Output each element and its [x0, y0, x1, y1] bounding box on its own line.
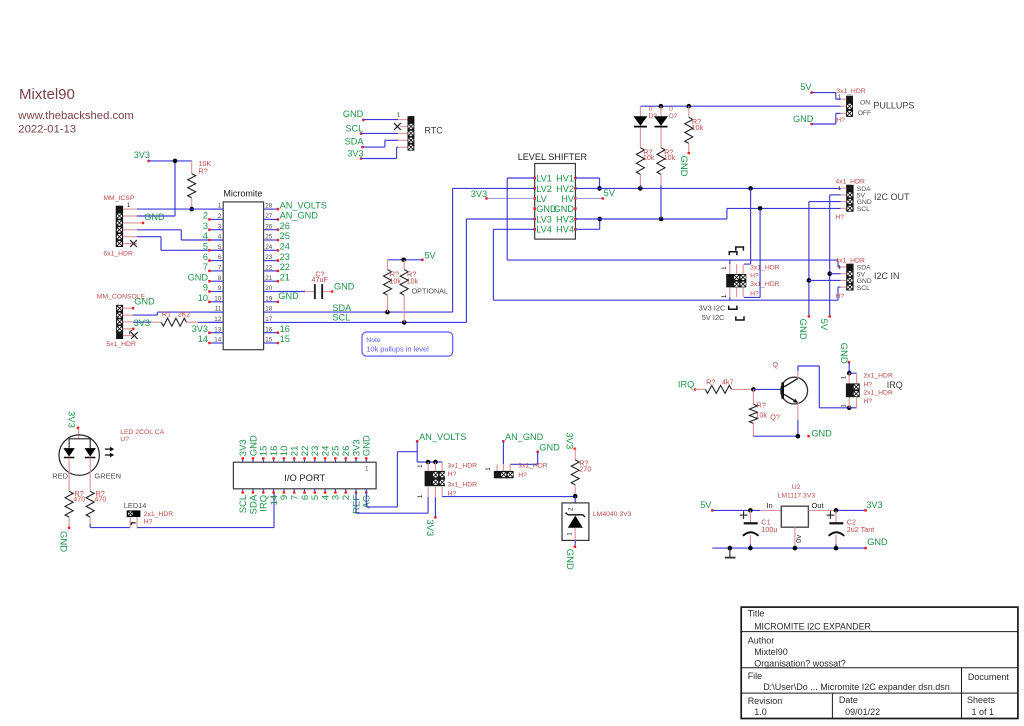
node 5V (level shifter HV) — [602, 188, 616, 200]
svg-text:2u2 Tant: 2u2 Tant — [847, 525, 874, 534]
svg-text:3x1_HDR: 3x1_HDR — [750, 281, 780, 288]
Micromite right pin numbers 28-15 — [265, 203, 273, 344]
svg-text:HV1: HV1 — [556, 173, 574, 183]
wire GND to header pin3 — [510, 452, 538, 471]
node 5V (PULLUPS) — [800, 82, 813, 94]
svg-text:File: File — [748, 671, 763, 681]
svg-text:3V3: 3V3 — [564, 432, 575, 449]
node 3V3 (jumper middle bottom) — [424, 497, 437, 536]
svg-text:Date: Date — [839, 695, 858, 705]
node 3V3 (regulator output) — [864, 500, 882, 512]
svg-text:GND: GND — [811, 429, 832, 439]
svg-text:GND: GND — [343, 109, 364, 119]
wire 3V3 to LV pin — [488, 197, 535, 199]
url text www.thebackshed.com — [17, 110, 134, 122]
svg-text:LV2: LV2 — [536, 184, 552, 194]
no-connect X on ICSP pin6 — [130, 240, 137, 247]
resistor R? 10k (under D? SDA) — [636, 147, 654, 188]
svg-text:OPTIONAL: OPTIONAL — [412, 286, 448, 295]
svg-text:4: 4 — [203, 231, 208, 241]
svg-text:LV1: LV1 — [536, 173, 552, 183]
svg-text:6x1_HDR: 6x1_HDR — [103, 250, 133, 257]
connector I/O PORT — [233, 462, 376, 489]
svg-text:3V3: 3V3 — [347, 148, 363, 158]
wire 5V to PULLUPS pin1 — [812, 93, 841, 100]
IRQ header bottom stubs — [849, 397, 856, 408]
svg-text:14: 14 — [198, 334, 208, 344]
svg-text:SCL: SCL — [345, 123, 363, 133]
svg-text:7: 7 — [218, 265, 222, 272]
svg-text:10k pullups in level: 10k pullups in level — [366, 345, 429, 354]
svg-text:5V: 5V — [424, 250, 436, 260]
svg-text:1: 1 — [838, 94, 841, 100]
svg-text:3x1_HDR: 3x1_HDR — [448, 481, 478, 488]
Micromite left pin numbers 1-14 — [214, 203, 222, 344]
Micromite left pin terminals — [208, 218, 211, 344]
wire HV1 to HV2 join — [575, 178, 599, 188]
junction HV3/HV4 — [597, 217, 602, 222]
junction net B / diode D? pulldown — [659, 217, 664, 222]
wire SDA to RTC pin4 — [363, 140, 408, 147]
svg-text:9: 9 — [218, 285, 222, 292]
svg-text:I2C OUT: I2C OUT — [874, 192, 910, 202]
wire green LED to LED14 jumper — [90, 524, 130, 528]
connector RTC (5x1 header) — [397, 113, 443, 151]
wire SCL to RTC pin3 — [361, 132, 408, 134]
svg-text:GND: GND — [867, 537, 888, 547]
Micromite right pin terminals — [277, 208, 280, 345]
svg-text:GND: GND — [554, 204, 575, 214]
IC level shifter module — [518, 152, 588, 239]
ground GND (IRQ header top) — [838, 343, 850, 364]
resistor R? 470 (green LED) — [86, 475, 106, 524]
svg-text:H?: H? — [518, 472, 527, 479]
svg-text:AN_VOLTS: AN_VOLTS — [419, 432, 466, 442]
svg-text:H?: H? — [835, 293, 844, 300]
svg-text:Mixtel90: Mixtel90 — [19, 86, 75, 103]
svg-text:LV: LV — [536, 194, 547, 204]
no-connect X on RTC pin2 — [394, 123, 408, 130]
ground GND (emitter) — [807, 429, 832, 439]
svg-text:3V3: 3V3 — [424, 519, 435, 536]
svg-text:R1: R1 — [162, 309, 171, 318]
wire net y300 into jumper pin (5V side) — [729, 297, 731, 300]
junction net B / SCL jumper drop — [758, 206, 763, 211]
connector PULLUPS (3x1 header) — [836, 88, 914, 124]
svg-text:15: 15 — [265, 337, 273, 344]
svg-text:GREEN: GREEN — [94, 471, 121, 480]
svg-text:3V3 I2C: 3V3 I2C — [699, 304, 726, 313]
svg-text:D:\User\Do ... Micromite I2C e: D:\User\Do ... Micromite I2C expander ds… — [763, 682, 950, 692]
svg-text:R?: R? — [757, 401, 766, 410]
label 3V3 on console wire — [134, 318, 150, 328]
resistor R? 10K (MCLR pullup) — [188, 159, 212, 209]
wire MCLR: ICSP pin1 to Micromite pin1 — [137, 208, 223, 210]
svg-text:1: 1 — [841, 375, 848, 379]
svg-text:2K2: 2K2 — [178, 309, 191, 318]
wire 5V to regulator In — [712, 501, 781, 511]
svg-text:1: 1 — [397, 113, 400, 119]
svg-text:D: D — [669, 107, 673, 113]
svg-text:HV2: HV2 — [556, 184, 574, 194]
svg-text:1: 1 — [365, 466, 369, 473]
svg-text:Q?: Q? — [770, 413, 780, 422]
svg-text:7: 7 — [203, 262, 208, 272]
IC U? Micromite (28-pin) — [223, 188, 263, 349]
junction C1 top — [748, 508, 753, 513]
wire 5V to pullup resistors — [388, 259, 423, 261]
wire base node to Q base — [753, 388, 781, 390]
svg-text:SDA: SDA — [345, 137, 365, 147]
svg-text:5V: 5V — [818, 319, 829, 331]
jumper top pin stubs — [730, 264, 743, 274]
node SDA (RTC pin4) — [345, 137, 365, 149]
svg-text:1: 1 — [721, 294, 728, 298]
resistor R? 10k (SDA optional pullup) — [384, 260, 402, 312]
svg-text:10k: 10k — [692, 123, 704, 132]
node SCL (RTC pin3) — [345, 123, 363, 135]
svg-text:10k: 10k — [389, 276, 401, 285]
junction GND rail / I2C IN GND — [807, 278, 812, 283]
connector I2C OUT (4x1 header) — [835, 179, 910, 221]
label SDA — [332, 303, 352, 313]
svg-text:GND: GND — [134, 296, 155, 306]
svg-text:4x1_HDR: 4x1_HDR — [835, 258, 865, 265]
svg-text:100u: 100u — [761, 525, 777, 534]
label OPTIONAL — [412, 286, 448, 295]
svg-text:10k: 10k — [643, 153, 655, 162]
svg-text:H?: H? — [448, 471, 457, 478]
wire net A: HV2 to I2C OUT SDA — [575, 187, 840, 189]
level shifter pin markers — [533, 177, 576, 231]
svg-text:28: 28 — [265, 203, 273, 210]
capacitor C2 2u2 Tant — [827, 510, 875, 548]
wire regulator Out to 3V3 — [808, 501, 865, 511]
I/O port top pin labels — [238, 435, 373, 456]
Micromite right net labels — [280, 200, 327, 344]
wire GND to PULLUPS pin3 — [812, 113, 841, 124]
label GND at Micromite pin19 — [278, 291, 299, 301]
svg-text:HV3: HV3 — [556, 214, 574, 224]
svg-text:GND: GND — [793, 114, 814, 124]
svg-text:ON: ON — [860, 99, 870, 106]
svg-text:LEVEL SHIFTER: LEVEL SHIFTER — [518, 152, 588, 162]
connector H? 3x1_HDR jumper pair (AN_VOLTS select) — [417, 462, 477, 498]
svg-text:2x1_HDR: 2x1_HDR — [863, 390, 893, 397]
node GND (below I2C headers) — [797, 315, 810, 340]
svg-text:1: 1 — [567, 532, 574, 536]
svg-text:D: D — [649, 107, 653, 113]
svg-text:3V3: 3V3 — [66, 411, 77, 428]
connector IRQ (2x 2x1 header) — [841, 373, 903, 408]
svg-text:LM4040 3V3: LM4040 3V3 — [593, 511, 632, 518]
node 3V3 (MCLR pullup) — [134, 150, 150, 162]
svg-text:5V I2C: 5V I2C — [702, 313, 725, 322]
svg-text:16: 16 — [265, 326, 273, 333]
svg-text:5: 5 — [203, 242, 208, 252]
node GND (console pin5) — [132, 296, 155, 309]
title block text Title — [748, 609, 871, 632]
svg-text:3x1_HDR: 3x1_HDR — [518, 463, 548, 470]
svg-text:24: 24 — [265, 244, 273, 251]
svg-text:Organisation? wossat?: Organisation? wossat? — [754, 659, 846, 669]
Micromite left net labels — [188, 211, 209, 345]
wire emitter to GND — [797, 403, 799, 436]
svg-text:Mixtel90: Mixtel90 — [754, 647, 788, 657]
ground symbol (rail) — [725, 548, 736, 558]
wire 3V3 to RTC pin5 — [361, 147, 408, 158]
svg-text:5V: 5V — [700, 500, 712, 510]
svg-text:AN_GND: AN_GND — [280, 211, 319, 221]
svg-text:LV3: LV3 — [536, 214, 552, 224]
svg-text:18: 18 — [265, 306, 273, 313]
wire net y260 into jumper pin (3V3 side) — [729, 260, 731, 264]
svg-text:5: 5 — [218, 244, 222, 251]
svg-text:Q: Q — [773, 360, 779, 369]
svg-text:LED14: LED14 — [124, 501, 147, 510]
svg-text:10k: 10k — [664, 153, 676, 162]
svg-text:22: 22 — [280, 262, 290, 272]
junctions on ground rail — [728, 546, 839, 551]
svg-text:Revision: Revision — [748, 696, 783, 706]
svg-text:11: 11 — [215, 306, 222, 313]
svg-text:27: 27 — [265, 213, 273, 220]
svg-text:25: 25 — [280, 231, 290, 241]
wire LV3 stub — [466, 218, 534, 220]
svg-text:IRQ: IRQ — [678, 380, 694, 390]
svg-text:SCL: SCL — [857, 285, 870, 292]
node 3V3 (R270 top) — [564, 432, 577, 450]
svg-text:Micromite: Micromite — [223, 188, 262, 198]
svg-text:1.0: 1.0 — [754, 707, 767, 717]
connector LED14 (2x1 header) — [124, 501, 173, 528]
node 5V (optional pullups) — [421, 250, 436, 261]
junction SDA / optional pullup — [385, 310, 390, 315]
junction 5V pullup branch — [401, 258, 406, 263]
svg-text:SDA: SDA — [332, 303, 352, 313]
svg-text:OFF: OFF — [858, 110, 871, 117]
svg-text:1: 1 — [721, 266, 728, 270]
svg-text:Sheets: Sheets — [967, 695, 996, 705]
node terminal console pin2 — [130, 328, 135, 335]
I/O port top pin terminals — [241, 457, 367, 460]
svg-text:GND: GND — [678, 156, 689, 177]
svg-text:I2C IN: I2C IN — [874, 271, 900, 281]
svg-text:3V3: 3V3 — [134, 150, 150, 160]
svg-text:0v: 0v — [794, 535, 803, 543]
wire SCL drop to I2C jumper pin — [744, 208, 760, 297]
labels 3V3 I2C / 5V I2C — [699, 304, 726, 323]
svg-text:470: 470 — [73, 495, 85, 504]
svg-text:10k: 10k — [407, 276, 419, 285]
junction SCL / optional pullup — [402, 320, 407, 325]
svg-text:HV4: HV4 — [556, 225, 574, 235]
svg-text:4: 4 — [218, 234, 222, 241]
wire console pin4 to Micromite pin11 — [133, 312, 223, 315]
wire pulldown bottom to emitter GND — [753, 435, 798, 437]
I/O port bottom pin stubs — [243, 489, 367, 492]
wire net SCL (Micromite pin17 to level shifter LV3) — [278, 219, 467, 322]
svg-text:1: 1 — [838, 265, 841, 271]
svg-text:GND: GND — [797, 319, 808, 340]
pin stubs MM_ICSP — [123, 209, 137, 243]
svg-text:GND: GND — [334, 281, 355, 291]
diode D? (SCL rail) — [654, 106, 678, 148]
svg-text:1: 1 — [417, 494, 424, 498]
svg-text:4k7: 4k7 — [722, 378, 734, 387]
svg-text:1: 1 — [485, 467, 492, 471]
connector MM_ICSP (6x1 header) — [103, 195, 134, 258]
node AN_VOLTS — [416, 432, 467, 443]
junction rail / D? — [659, 104, 664, 109]
svg-text:17: 17 — [265, 316, 273, 323]
wire I2C OUT GND pin to GND rail — [809, 202, 841, 317]
IC U2 LM1117 body — [781, 506, 808, 527]
wire AG pin to AN_VOLTS net — [366, 452, 417, 507]
junction C2 top — [834, 508, 839, 513]
svg-text:GND: GND — [58, 531, 69, 552]
node GND (PULLUPS) — [793, 114, 814, 125]
svg-text:1: 1 — [841, 404, 848, 408]
svg-text:MM_ICSP: MM_ICSP — [103, 195, 134, 202]
wire net B: HV3 to I2C OUT SCL — [575, 208, 840, 219]
resistor R? 10k (under D? SCL) — [657, 147, 676, 219]
wire console pin3 to R1 — [133, 321, 151, 323]
svg-text:24: 24 — [280, 242, 290, 252]
wire I2C OUT 5V pin to 5V rail — [830, 195, 841, 317]
labels LED 2COL CA / U? — [120, 429, 164, 443]
title block frame — [741, 607, 1018, 718]
junction net A / SDA jumper drop — [748, 186, 753, 191]
junction rail / R? 10k — [687, 104, 692, 109]
svg-text:2x1_HDR: 2x1_HDR — [863, 373, 893, 380]
jumper bottom pin stubs — [730, 287, 743, 297]
transistor Q (NPN) — [773, 360, 808, 404]
connector I2C IN (4x1 header) — [835, 258, 899, 300]
svg-text:RTC: RTC — [424, 126, 443, 136]
wire HV4 to HV3 join — [575, 219, 599, 229]
svg-text:3V3: 3V3 — [134, 318, 150, 328]
svg-text:3V3: 3V3 — [866, 500, 882, 510]
svg-text:Out: Out — [812, 501, 825, 510]
svg-text:3x1_HDR: 3x1_HDR — [750, 265, 780, 272]
svg-text:LV4: LV4 — [536, 225, 552, 235]
wire SDA drop to I2C jumper pin — [744, 188, 751, 264]
wire REF pin to jumper — [356, 492, 428, 513]
wire GND to IRQ header top pins — [848, 362, 850, 373]
title block text File — [748, 671, 1010, 692]
svg-text:1: 1 — [218, 203, 222, 210]
junction LM4040 reference node — [573, 494, 578, 499]
svg-text:GND: GND — [362, 435, 373, 456]
wire AN_VOLTS to jumper top pins — [417, 441, 442, 462]
svg-text:5x1_HDR: 5x1_HDR — [106, 341, 136, 348]
junction 5V rail / I2C IN 5V — [827, 271, 832, 276]
Micromite right pin stubs — [264, 209, 278, 343]
resistor R? 10k (base pulldown) — [749, 389, 767, 436]
svg-text:GND: GND — [144, 212, 165, 222]
resistor R? 270 — [571, 449, 591, 496]
wire AN_GND to header pin2 — [502, 441, 504, 471]
svg-text:26: 26 — [265, 223, 273, 230]
wire regulator ground rail — [712, 547, 865, 549]
svg-text:16: 16 — [280, 324, 290, 334]
svg-text:5V: 5V — [800, 82, 812, 92]
junction IRQ header top — [847, 371, 852, 376]
node GND (C? right) — [331, 281, 355, 292]
wire collector to IRQ header — [798, 366, 849, 408]
svg-text:AN_GND: AN_GND — [505, 432, 544, 442]
I/O port bottom pin terminals — [241, 491, 367, 494]
svg-text:3V3: 3V3 — [471, 189, 487, 199]
svg-text:26: 26 — [280, 221, 290, 231]
level shifter pin names — [536, 173, 575, 234]
wire I2C IN 5V pin — [830, 273, 841, 275]
svg-text:GND: GND — [838, 343, 849, 364]
svg-text:H?: H? — [750, 291, 759, 298]
junction IRQ header bottom — [847, 406, 852, 411]
svg-text:IRQ: IRQ — [887, 380, 903, 390]
svg-text:I/O PORT: I/O PORT — [284, 472, 325, 483]
node GND (RTC pin1) — [343, 109, 365, 121]
title block text Author — [748, 635, 846, 668]
junction net A / diode D? pulldown — [638, 186, 643, 191]
wire jumper to LM4040 reference node — [442, 496, 575, 498]
ground GND (below rail resistor) — [678, 152, 690, 177]
svg-text:21: 21 — [265, 275, 273, 282]
junction 3V3/ICSP branch — [173, 159, 178, 164]
wire LV2 stub — [453, 187, 535, 189]
connector H? 3x1_HDR jumper pair (3V3/5V I2C select) — [726, 274, 746, 287]
svg-text:H?: H? — [836, 117, 845, 124]
svg-text:U?: U? — [120, 436, 129, 443]
svg-text:RED: RED — [52, 471, 68, 480]
Micromite left pin stubs — [209, 209, 223, 343]
resistor R1 2K2 (console series) — [151, 309, 198, 326]
label SCL — [332, 313, 350, 323]
svg-text:www.thebackshed.com: www.thebackshed.com — [17, 110, 134, 122]
connector H? 3x1_HDR (AN_GND) — [485, 463, 548, 479]
note box: 10k pullups in level — [362, 332, 453, 356]
connector MM_CONSOLE (5x1 header) — [97, 294, 146, 348]
svg-text:GND: GND — [564, 549, 575, 570]
svg-text:4x1_HDR: 4x1_HDR — [835, 179, 865, 186]
svg-text:Document: Document — [968, 672, 1010, 682]
junctions jumper top pins — [426, 460, 438, 465]
svg-text:GND: GND — [278, 291, 299, 301]
svg-text:25: 25 — [265, 234, 273, 241]
svg-text:270: 270 — [579, 464, 591, 473]
svg-text:1: 1 — [417, 464, 424, 468]
svg-text:23: 23 — [265, 254, 273, 261]
svg-text:AN_VOLTS: AN_VOLTS — [280, 200, 327, 210]
svg-text:23: 23 — [280, 252, 290, 262]
wire I2C IN GND pin — [809, 279, 841, 281]
date text 2022-01-13 — [18, 124, 76, 136]
svg-text:GND: GND — [539, 443, 560, 453]
node 3V3 (RTC pin5) — [347, 148, 363, 160]
wire LED14 to I/O port pin 14 — [137, 492, 274, 528]
wire ICSP pin5 to Micromite pin5 — [137, 237, 223, 251]
svg-text:10: 10 — [198, 293, 208, 303]
label Q? — [770, 413, 780, 422]
svg-text:2: 2 — [203, 211, 208, 221]
svg-text:1 of 1: 1 of 1 — [972, 707, 995, 717]
resistor R? 10k (rail to GND) — [685, 106, 704, 151]
svg-text:D?: D? — [669, 113, 678, 120]
wire pullup rail (diode tops to PULLUPS header) — [640, 105, 840, 107]
svg-text:15: 15 — [280, 334, 290, 344]
